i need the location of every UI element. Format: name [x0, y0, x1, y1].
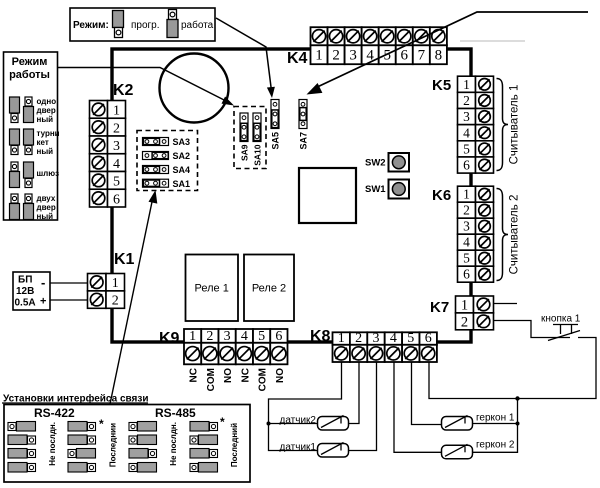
- svg-text:SA4: SA4: [173, 165, 191, 175]
- callout top-right to SA7 (arrow): [313, 12, 588, 89]
- terminal block K1: [88, 274, 107, 291]
- svg-text:3: 3: [224, 329, 231, 344]
- svg-text:Реле 2: Реле 2: [252, 283, 286, 295]
- svg-text:1: 1: [112, 276, 119, 291]
- svg-text:4: 4: [463, 235, 470, 250]
- wire геркон rail right: [472, 399, 518, 453]
- svg-text:датчик2: датчик2: [280, 415, 317, 426]
- svg-text:двух: двух: [37, 194, 56, 203]
- svg-text:1: 1: [315, 48, 323, 64]
- svg-text:6: 6: [401, 48, 409, 64]
- svg-text:2: 2: [206, 329, 213, 344]
- jumper icon работа (cap bottom): [169, 10, 177, 20]
- svg-text:прогр.: прогр.: [131, 20, 160, 31]
- wire кнопка 1 to K8.6: [429, 338, 596, 399]
- датчик2 sensor symbol: [318, 417, 349, 431]
- svg-text:NC: NC: [240, 368, 251, 382]
- svg-text:Последнии: Последнии: [109, 423, 118, 467]
- faint line top right: [460, 40, 525, 42]
- svg-text:SA10: SA10: [253, 144, 263, 166]
- wire K8.4 to геркон2 left: [394, 362, 442, 453]
- svg-text:5: 5: [407, 331, 414, 346]
- svg-text:K2: K2: [113, 82, 134, 99]
- jumper SA4: [143, 166, 169, 174]
- brace Считыватель 1: [497, 79, 509, 171]
- svg-text:геркон 2: геркон 2: [476, 440, 515, 451]
- jumper SA1: [143, 179, 169, 187]
- wire геркон1 right to rail: [472, 423, 518, 425]
- svg-text:12В: 12В: [16, 286, 34, 297]
- svg-text:SA1: SA1: [173, 179, 191, 189]
- svg-text:1: 1: [113, 104, 120, 119]
- jumper icon прогр (cap top): [113, 11, 124, 28]
- svg-text:2: 2: [463, 203, 470, 218]
- terminal block K7: [456, 296, 474, 313]
- jumper SA3: [143, 138, 169, 146]
- svg-text:кет: кет: [37, 138, 49, 147]
- svg-text:K9: K9: [159, 330, 180, 347]
- svg-text:кнопка 1: кнопка 1: [541, 314, 581, 325]
- terminal block K4: [311, 27, 328, 45]
- terminal block K2: [90, 101, 108, 119]
- svg-text:3: 3: [349, 48, 357, 64]
- svg-text:Последний: Последний: [230, 423, 239, 467]
- svg-text:+: +: [40, 296, 46, 308]
- svg-text:8: 8: [435, 48, 443, 64]
- svg-text:K8: K8: [310, 328, 331, 345]
- svg-text:5: 5: [463, 251, 470, 266]
- svg-text:3: 3: [463, 109, 470, 124]
- terminal block K5: [458, 76, 476, 92]
- svg-text:турни: турни: [37, 129, 60, 138]
- svg-text:SA9: SA9: [240, 144, 250, 161]
- svg-text:2: 2: [113, 121, 120, 136]
- jumper SA2: [143, 152, 169, 160]
- svg-text:RS-422: RS-422: [34, 406, 75, 420]
- svg-text:SA2: SA2: [173, 151, 191, 161]
- svg-text:K6: K6: [432, 187, 451, 204]
- svg-text:5: 5: [113, 175, 120, 190]
- jumper SA9: [240, 113, 248, 142]
- svg-text:5: 5: [463, 141, 470, 156]
- svg-text:7: 7: [418, 48, 426, 64]
- геркон2 reed switch symbol: [442, 445, 473, 459]
- wire K7.1 stub: [493, 303, 517, 305]
- power supply БП 12В 0.5А: [13, 272, 50, 310]
- dashed box SA9 SA10: [234, 107, 266, 169]
- svg-text:RS-485: RS-485: [155, 406, 196, 420]
- датчик1 sensor symbol: [318, 444, 349, 458]
- svg-text:SA5: SA5: [271, 132, 281, 150]
- svg-text:двер: двер: [37, 203, 56, 212]
- svg-text:4: 4: [463, 125, 470, 140]
- terminal block K6: [458, 186, 476, 202]
- svg-text:Не послдн.: Не послдн.: [169, 422, 178, 466]
- jumper SA10: [253, 113, 261, 142]
- svg-text:двер: двер: [37, 106, 56, 115]
- svg-text:SW1: SW1: [365, 184, 386, 195]
- IC chip U1: [299, 168, 356, 223]
- wire K7.2 to кнопка 1: [493, 321, 570, 338]
- svg-text:1: 1: [461, 297, 468, 313]
- battery circle Q1: [160, 54, 229, 123]
- svg-text:6: 6: [113, 192, 120, 207]
- svg-text:3: 3: [463, 219, 470, 234]
- svg-text:4: 4: [241, 329, 248, 344]
- svg-text:3: 3: [113, 139, 120, 154]
- wire K8.2 to датчик2 right: [348, 362, 359, 424]
- wire K8.5 to геркон1 left: [412, 362, 442, 425]
- wire БП to K1 (+/-): [50, 282, 88, 284]
- svg-text:одно: одно: [37, 97, 57, 106]
- svg-text:2: 2: [355, 331, 362, 346]
- svg-text:датчик1: датчик1: [280, 442, 317, 453]
- svg-text:SW2: SW2: [365, 158, 386, 169]
- svg-text:4: 4: [113, 157, 120, 172]
- svg-text:K7: K7: [430, 299, 449, 316]
- svg-text:NO: NO: [223, 368, 234, 383]
- svg-text:-: -: [41, 275, 45, 290]
- svg-text:1: 1: [463, 187, 470, 202]
- jumpers RS-485 последний: [190, 422, 209, 432]
- svg-text:5: 5: [258, 329, 265, 344]
- svg-text:0.5А: 0.5А: [15, 298, 36, 309]
- junction геркон1 right: [516, 422, 520, 426]
- svg-text:6: 6: [463, 158, 470, 173]
- terminal block K9: [184, 329, 201, 343]
- mode турникетный jumpers: [10, 129, 20, 145]
- svg-text:2: 2: [461, 314, 468, 330]
- svg-text:SA7: SA7: [299, 132, 309, 150]
- svg-text:K1: K1: [114, 251, 135, 268]
- svg-text:работы: работы: [9, 69, 50, 81]
- legend box Режим работы: [4, 52, 58, 220]
- svg-text:NO: NO: [275, 368, 286, 383]
- legend box Режим прогр/работа: [70, 8, 215, 41]
- svg-text:COM: COM: [258, 368, 269, 391]
- svg-text:4: 4: [390, 331, 397, 346]
- геркон1 reed switch symbol: [442, 417, 473, 431]
- svg-text:1: 1: [189, 329, 196, 344]
- svg-text:Считыватель 2: Считыватель 2: [509, 195, 521, 275]
- svg-text:2: 2: [332, 48, 340, 64]
- jumpers RS-485 не последний: [129, 423, 137, 431]
- svg-text:Режим:: Режим:: [73, 20, 109, 31]
- jumpers RS-422 не последний: [8, 423, 16, 431]
- jumpers RS-422 последний: [68, 422, 87, 432]
- relay Реле 2: [244, 255, 294, 322]
- junction датчик rail: [267, 422, 271, 426]
- board outline (controller PCB): [112, 49, 471, 342]
- svg-text:2: 2: [463, 93, 470, 108]
- svg-text:ный: ный: [37, 212, 54, 221]
- junction геркон rail top: [515, 396, 519, 400]
- svg-text:*: *: [220, 415, 225, 429]
- jumper SA5: [271, 100, 279, 129]
- dashed box SA1-SA4: [137, 131, 198, 191]
- wire K8.1 to датчик rail: [269, 362, 342, 451]
- svg-text:*: *: [99, 417, 104, 431]
- wire branch to датчик2 left: [269, 423, 318, 425]
- svg-text:6: 6: [425, 331, 432, 346]
- svg-text:3: 3: [373, 331, 380, 346]
- brace Считыватель 2: [497, 189, 509, 281]
- relay Реле 1: [186, 255, 239, 322]
- callout Режим box to SA5 (arrow): [216, 18, 272, 91]
- svg-text:Не послдн.: Не послдн.: [48, 422, 57, 466]
- svg-text:Считыватель 1: Считыватель 1: [509, 85, 521, 165]
- mode шлюз jumpers: [11, 162, 18, 171]
- callout Установки интерфейса связи to SA1-SA4 (arrow): [110, 199, 153, 404]
- wire K8.3 to датчик1 right: [348, 362, 377, 451]
- svg-text:геркон 1: геркон 1: [476, 413, 515, 424]
- svg-text:SA3: SA3: [173, 137, 191, 147]
- svg-text:шлюз: шлюз: [37, 169, 60, 178]
- mode однодверный jumpers: [10, 97, 20, 113]
- svg-text:6: 6: [463, 267, 470, 282]
- svg-text:ный: ный: [37, 147, 54, 156]
- terminal block K8: [333, 332, 350, 345]
- svg-text:K5: K5: [432, 77, 451, 94]
- svg-text:Режим: Режим: [12, 56, 48, 68]
- svg-text:K4: K4: [287, 50, 308, 67]
- svg-text:БП: БП: [18, 275, 32, 286]
- svg-text:работа: работа: [181, 19, 214, 31]
- mode двухдверный jumpers: [11, 194, 18, 203]
- svg-text:1: 1: [463, 77, 470, 92]
- jumper SA7: [299, 100, 307, 129]
- callout Режим работы to SA9/SA10 (arrow through circle): [57, 68, 230, 104]
- svg-text:1: 1: [338, 331, 345, 346]
- svg-text:Реле 1: Реле 1: [195, 283, 229, 295]
- кнопка 1 push-button symbol: [548, 331, 580, 341]
- svg-text:ный: ный: [37, 115, 54, 124]
- svg-text:NC: NC: [189, 368, 200, 382]
- svg-text:2: 2: [112, 294, 119, 309]
- svg-text:COM: COM: [206, 368, 217, 391]
- svg-text:6: 6: [275, 329, 282, 344]
